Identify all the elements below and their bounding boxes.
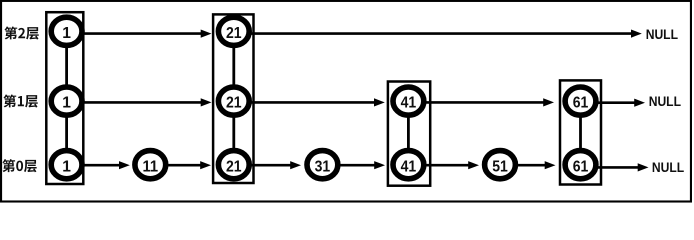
arrow L0 1→11 (67, 164, 123, 167)
node 21 level-1 (218, 87, 249, 115)
arrow L1 41→61 (408, 101, 546, 104)
arrow L2 1→21 (67, 32, 204, 35)
wire tower-41 vertical (407, 101, 410, 165)
arrow L0 61→NULL (581, 166, 642, 169)
node 21 level-2 (218, 17, 249, 45)
svg-text:41: 41 (401, 158, 417, 175)
tower box node-1 (46, 12, 83, 184)
node 61 level-0 (565, 151, 596, 179)
tower box node-61 (560, 80, 601, 184)
arrow L1 21→41 (234, 101, 377, 104)
svg-text:NULL: NULL (652, 159, 685, 175)
svg-text:21: 21 (226, 95, 242, 112)
wire tower-1 vertical (65, 31, 68, 164)
svg-text:51: 51 (492, 158, 508, 175)
arrow L1 61→NULL (581, 101, 638, 104)
arrow L0 31→41 (322, 164, 377, 167)
node 11 level-0 (135, 151, 166, 179)
svg-text:11: 11 (143, 158, 159, 175)
node 1 level-0 (51, 151, 82, 179)
svg-text:1: 1 (62, 158, 71, 175)
label level-0 (第0层) (2, 159, 36, 172)
node 1 level-2 (51, 17, 82, 45)
svg-text:NULL: NULL (646, 26, 679, 42)
label level-1 (第1层) (3, 94, 37, 107)
node 61 level-1 (565, 87, 596, 115)
svg-text:31: 31 (315, 158, 331, 175)
node 41 level-0 (393, 151, 424, 179)
arrow L0 21→31 (234, 164, 294, 167)
tower box node-41 (388, 82, 430, 186)
node 21 level-0 (218, 151, 249, 179)
svg-text:NULL: NULL (649, 93, 682, 109)
svg-text:21: 21 (226, 25, 242, 42)
arrow L2 21→NULL (234, 32, 635, 35)
arrow L0 11→21 (150, 164, 203, 167)
svg-text:41: 41 (401, 95, 417, 112)
arrow L1 1→21 (67, 101, 204, 104)
node 31 level-0 (307, 151, 338, 179)
arrow L0 51→61 (500, 164, 548, 167)
svg-text:21: 21 (226, 158, 242, 175)
wire tower-21 vertical (232, 31, 235, 164)
node 1 level-1 (51, 87, 82, 115)
svg-text:61: 61 (573, 158, 589, 175)
node 41 level-1 (393, 87, 424, 115)
arrow L0 41→51 (408, 164, 471, 167)
label level-2 (第2层) (4, 26, 38, 39)
svg-text:1: 1 (62, 95, 71, 112)
svg-text:61: 61 (573, 95, 589, 112)
svg-text:1: 1 (62, 25, 71, 42)
tower box node-21 (213, 14, 253, 183)
wire tower-61 vertical (579, 101, 582, 165)
node 51 level-0 (485, 151, 516, 179)
